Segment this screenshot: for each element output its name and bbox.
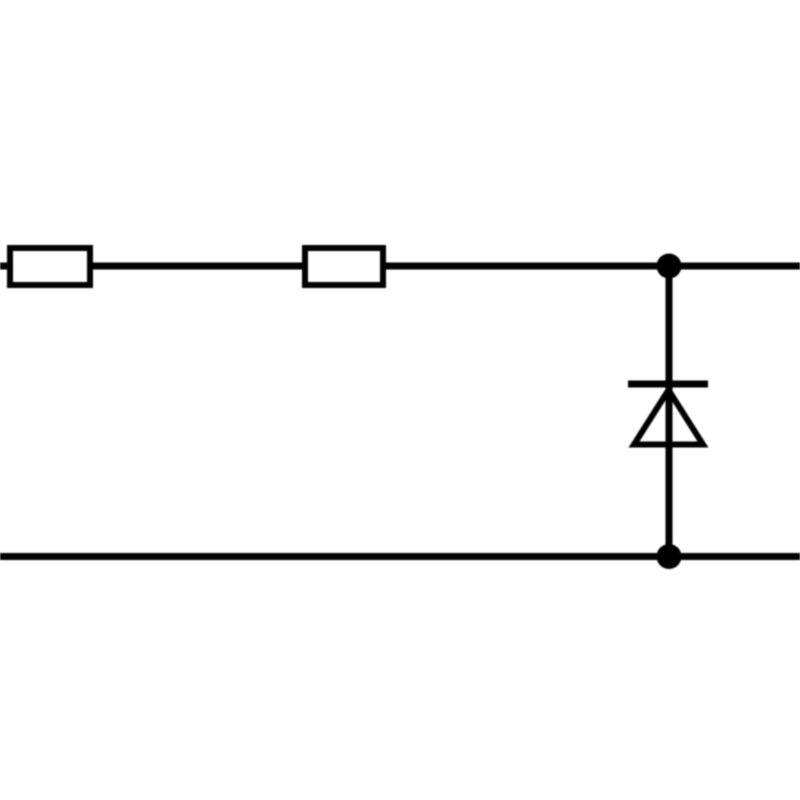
wire: vertical branch <box>666 266 673 557</box>
wire: top rail left edge to R1 <box>0 263 14 270</box>
resistor R1 <box>10 248 90 285</box>
wire: R2 to right edge <box>383 263 800 270</box>
wire: bottom rail <box>0 553 800 560</box>
diode D1 cathode bar <box>628 381 708 388</box>
wire: R1 to R2 <box>90 263 308 270</box>
junction node bottom <box>657 544 682 569</box>
diode D1 anode triangle <box>634 390 703 445</box>
resistor R2 <box>305 248 383 285</box>
diode D1 <box>628 384 708 445</box>
junction node top <box>657 254 682 279</box>
